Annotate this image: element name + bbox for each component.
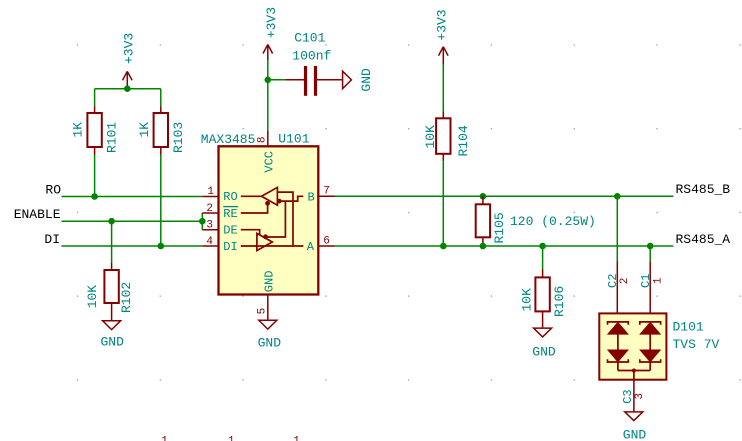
pin C1 (1) (639, 262, 665, 314)
svg-text:C1: C1 (639, 274, 653, 288)
svg-text:2: 2 (206, 203, 213, 215)
svg-text:10K: 10K (85, 285, 100, 309)
svg-text:1: 1 (652, 277, 664, 284)
svg-text:1K: 1K (71, 122, 86, 138)
svg-text:3: 3 (206, 220, 213, 232)
node D101 mid (632, 369, 636, 373)
wire (160, 89, 162, 107)
ground C101 (343, 68, 374, 92)
wire (267, 60, 269, 130)
svg-text:R101: R101 (105, 122, 120, 153)
D101 internal left diodes (608, 322, 629, 371)
wire (126, 86, 128, 89)
svg-text:8: 8 (257, 136, 269, 143)
svg-text:3: 3 (634, 393, 646, 400)
svg-text:MAX3485: MAX3485 (201, 132, 256, 147)
wire receiver input to B (277, 196, 303, 201)
op-amp U1 / IC U101 MAX3485 body (201, 131, 318, 294)
svg-text:R105: R105 (492, 212, 507, 243)
svg-text:VCC: VCC (263, 151, 277, 173)
svg-text:120 (0.25W): 120 (0.25W) (510, 214, 596, 229)
svg-text:B: B (307, 190, 314, 204)
svg-text:6: 6 (323, 235, 330, 247)
power +3V3 VCC node (263, 7, 279, 60)
svg-text:1K: 1K (137, 122, 152, 138)
resistor R104 (423, 111, 471, 161)
node RE enable dot (265, 201, 270, 206)
svg-text:GND: GND (100, 335, 124, 350)
U101 internal receiver triangle (262, 187, 278, 205)
svg-text:RO: RO (45, 182, 61, 197)
wire (111, 221, 113, 263)
ground R106 (532, 328, 556, 359)
svg-text:C3: C3 (621, 389, 635, 403)
resistor R105 (476, 193, 596, 249)
pin C3 (3) (621, 371, 646, 412)
svg-text:+3V3: +3V3 (264, 7, 279, 38)
node R106 junction (539, 243, 546, 250)
node R104-A junction (440, 243, 447, 250)
wire (95, 88, 161, 90)
svg-text:R106: R106 (552, 286, 567, 317)
wire (160, 155, 162, 247)
pin C2 (2) (606, 262, 631, 314)
svg-text:RO: RO (223, 190, 237, 204)
wire C2 (616, 196, 618, 261)
svg-text:A: A (307, 240, 315, 254)
svg-text:U101: U101 (278, 131, 309, 146)
power +3V3 PWR01 (122, 33, 137, 86)
svg-text:1: 1 (228, 436, 235, 441)
wire (442, 161, 444, 246)
wire B to driver (266, 201, 286, 237)
node receiver input dot (277, 199, 282, 204)
node VCC junction (265, 77, 272, 84)
wire RO internal (241, 195, 262, 197)
svg-text:10K: 10K (423, 125, 438, 149)
grid dots (77, 44, 741, 380)
svg-text:10K: 10K (520, 288, 535, 312)
svg-text:RE: RE (223, 207, 237, 221)
wire RE internal (241, 203, 268, 213)
node +3V3 junction (124, 85, 131, 92)
node DI junction (158, 243, 165, 250)
node C1 junction (647, 243, 654, 250)
svg-text:GND: GND (532, 344, 556, 359)
pin 3 DE (202, 220, 237, 238)
svg-text:2: 2 (619, 278, 631, 285)
pin 2 ~RE (202, 203, 238, 221)
node C2 junction (614, 193, 621, 200)
ground U101 pin5 (258, 320, 282, 350)
pin 5 GND (256, 271, 276, 321)
svg-text:+3V3: +3V3 (122, 33, 137, 64)
pin 8 VCC (257, 130, 277, 172)
svg-text:ENABLE: ENABLE (14, 207, 61, 222)
svg-text:R102: R102 (119, 282, 134, 313)
power +3V3 R104 (435, 9, 450, 65)
svg-text:100nf: 100nf (292, 48, 331, 63)
svg-text:1: 1 (161, 436, 168, 441)
pin 4 DI (202, 236, 237, 254)
diode D101 TVS (599, 313, 719, 379)
svg-text:GND: GND (263, 271, 277, 293)
wire (442, 65, 444, 111)
resistor R103 (137, 106, 186, 154)
pin 6 A (307, 235, 335, 254)
wire RS485_A (335, 245, 674, 247)
node driver out dot (263, 234, 268, 239)
pin 7 B (307, 186, 334, 205)
capacitor C101 (286, 30, 343, 96)
svg-text:DI: DI (223, 240, 237, 254)
wire (268, 79, 286, 81)
svg-text:D101: D101 (673, 319, 704, 334)
svg-text:1: 1 (293, 436, 300, 441)
svg-text:DI: DI (44, 232, 60, 247)
resistor R101 (71, 106, 120, 154)
svg-text:4: 4 (206, 236, 213, 248)
svg-text:GND: GND (359, 68, 374, 92)
svg-text:C101: C101 (294, 30, 325, 45)
D101 internal right diodes (640, 322, 661, 371)
wire (94, 155, 96, 197)
svg-text:R103: R103 (171, 122, 186, 153)
svg-text:GND: GND (623, 428, 647, 441)
wire DI (62, 245, 203, 247)
svg-text:RS485_B: RS485_B (676, 182, 731, 197)
svg-text:DE: DE (223, 223, 237, 237)
svg-text:5: 5 (256, 308, 268, 315)
node ENABLE junction (108, 218, 115, 225)
wire pin2-pin3 jog (201, 213, 203, 230)
svg-text:GND: GND (258, 335, 282, 350)
svg-text:1: 1 (207, 186, 214, 198)
wire DI-A internal (241, 245, 304, 247)
wire DE internal (241, 230, 260, 236)
resistor R106 (520, 270, 568, 328)
pin 1 RO (202, 186, 237, 204)
ground D101 (623, 412, 647, 441)
node RO junction (91, 193, 98, 200)
wire (542, 246, 544, 270)
wire C1 (649, 246, 651, 262)
svg-text:R104: R104 (456, 125, 471, 156)
wire receiver top to A (277, 192, 293, 246)
wire RS485_B (335, 195, 674, 197)
svg-text:7: 7 (323, 186, 330, 198)
svg-text:RS485_A: RS485_A (676, 232, 731, 247)
wire (94, 89, 96, 107)
U101 internal driver triangle (257, 233, 272, 250)
svg-text:TVS 7V: TVS 7V (673, 337, 720, 352)
wire ENABLE (62, 220, 203, 222)
wire RO (62, 196, 203, 198)
wire D101 internal join (618, 370, 650, 372)
svg-text:+3V3: +3V3 (435, 9, 450, 40)
resistor R102 (85, 263, 134, 321)
node jog junction (199, 218, 206, 225)
ground R102 (100, 321, 124, 350)
